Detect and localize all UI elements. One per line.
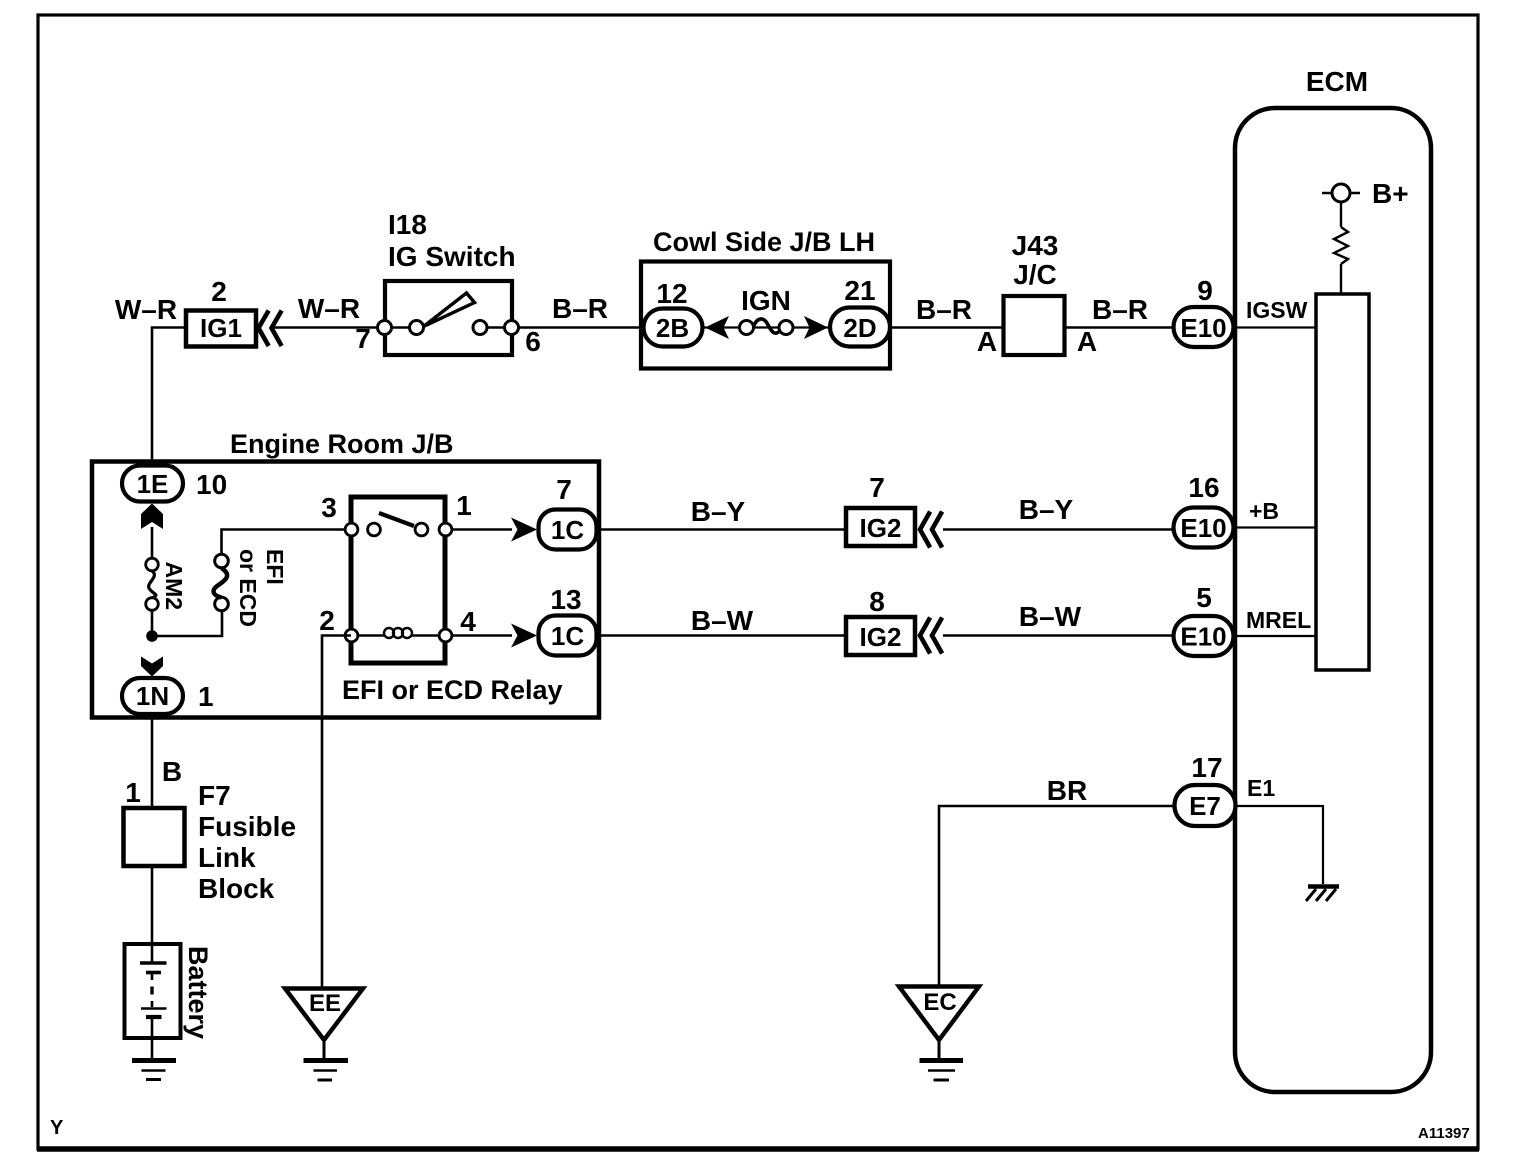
svg-text:4: 4 xyxy=(460,606,476,637)
junction block Cowl Side J/B LH xyxy=(641,227,890,369)
svg-text:7: 7 xyxy=(355,323,371,354)
wire B-W from 1C to IG2 xyxy=(596,605,846,636)
svg-text:Engine Room J/B: Engine Room J/B xyxy=(230,429,454,459)
svg-text:W–R: W–R xyxy=(298,293,360,324)
svg-text:5: 5 xyxy=(1196,582,1212,613)
connector E10 pin 16 xyxy=(1174,508,1234,548)
svg-text:E10: E10 xyxy=(1180,513,1226,543)
wire E1 to chassis ground xyxy=(1236,806,1323,884)
svg-text:B+: B+ xyxy=(1372,178,1409,209)
svg-text:2B: 2B xyxy=(656,313,689,343)
wire +B into ECM xyxy=(1234,526,1316,528)
svg-text:AM2: AM2 xyxy=(161,562,187,611)
svg-text:Link: Link xyxy=(198,842,256,873)
junction connector J43 J/C xyxy=(1004,230,1065,355)
fuse AM2 xyxy=(146,527,187,632)
svg-text:1C: 1C xyxy=(551,621,584,651)
wire inside IG switch xyxy=(384,326,416,328)
svg-text:+B: +B xyxy=(1249,498,1279,524)
Engine Room J/B box xyxy=(92,429,599,718)
svg-text:J43: J43 xyxy=(1012,230,1059,261)
svg-text:Battery: Battery xyxy=(183,946,213,1039)
relay coil pins xyxy=(345,629,452,642)
svg-text:J/C: J/C xyxy=(1013,259,1057,290)
svg-text:EE: EE xyxy=(309,990,341,1017)
battery xyxy=(125,944,214,1059)
svg-text:17: 17 xyxy=(1191,752,1222,783)
svg-text:B–R: B–R xyxy=(1092,294,1148,325)
svg-text:12: 12 xyxy=(656,278,687,309)
connector chevrons after IG1 xyxy=(259,313,281,345)
wire B-R from IG switch to cowl side J/B xyxy=(519,293,643,328)
svg-text:A: A xyxy=(977,326,997,357)
switch pin contacts xyxy=(378,321,519,335)
svg-text:2D: 2D xyxy=(843,313,876,343)
wire B-Y from IG2 to E10 xyxy=(943,494,1175,530)
fuse IG1 xyxy=(186,311,256,347)
ECM block xyxy=(1235,66,1431,1092)
fusible link IGN inside cowl J/B xyxy=(740,285,794,335)
wire through IGN fusible link xyxy=(703,326,830,328)
connector E10 pin 5 xyxy=(1174,616,1234,656)
svg-text:7: 7 xyxy=(869,472,885,503)
switch I18 IG Switch xyxy=(355,209,541,357)
svg-text:B–W: B–W xyxy=(691,605,754,636)
current arrow down to 1N xyxy=(141,657,163,677)
svg-text:IG2: IG2 xyxy=(860,513,902,543)
fuse IG2 (B-Y row) xyxy=(846,508,915,546)
connector chevrons after IG2 (B-Y row) xyxy=(920,514,941,546)
wire from relay pin 1 to 1C xyxy=(452,528,512,530)
resistor inside ECM xyxy=(1334,202,1348,294)
svg-text:E10: E10 xyxy=(1180,313,1226,343)
svg-text:IGSW: IGSW xyxy=(1246,297,1308,323)
svg-text:IG Switch: IG Switch xyxy=(388,241,516,272)
connector chevrons after IG2 (B-W row) xyxy=(920,620,941,652)
wire B-R from J43 to E10 xyxy=(1065,294,1175,328)
svg-text:ECM: ECM xyxy=(1306,66,1368,97)
svg-text:Y: Y xyxy=(50,1117,64,1139)
current arrow up to 1E xyxy=(141,504,163,530)
connector arrow at 1C pin 13 xyxy=(511,624,537,648)
svg-text:10: 10 xyxy=(196,469,227,500)
svg-text:B–R: B–R xyxy=(916,294,972,325)
svg-text:A11397: A11397 xyxy=(1418,1125,1470,1142)
connector 1E xyxy=(122,466,183,502)
relay EFI or ECD Relay xyxy=(319,490,562,705)
connector arrow at 1C pin 7 xyxy=(511,518,537,542)
relay switch lever xyxy=(379,513,414,526)
svg-text:7: 7 xyxy=(556,474,572,505)
svg-text:E7: E7 xyxy=(1189,791,1221,821)
connector 1C pin 7 xyxy=(539,510,597,550)
svg-text:W–R: W–R xyxy=(115,294,177,325)
svg-text:1N: 1N xyxy=(136,681,169,711)
wire from fusible link block to battery xyxy=(151,866,154,944)
connector 1C pin 13 xyxy=(539,616,597,656)
wire B-R from cowl J/B to J43 xyxy=(890,294,1003,328)
fuse IG2 (B-W row) xyxy=(846,617,915,655)
relay contact pins top xyxy=(345,523,452,536)
svg-text:B: B xyxy=(162,756,182,787)
svg-text:MREL: MREL xyxy=(1246,607,1311,633)
svg-text:IG1: IG1 xyxy=(200,313,242,343)
wire W-R from IG1 down to Engine Room J/B xyxy=(152,328,184,467)
svg-text:1: 1 xyxy=(456,490,472,521)
ground below battery xyxy=(132,1061,176,1080)
ground EC xyxy=(899,987,979,1081)
wire from EFI fuse to relay pin 3 xyxy=(222,530,351,555)
svg-text:B–R: B–R xyxy=(552,293,608,324)
svg-text:1E: 1E xyxy=(137,469,169,499)
svg-text:A: A xyxy=(1077,326,1097,357)
svg-text:E10: E10 xyxy=(1180,622,1226,652)
svg-text:EFI or ECD Relay: EFI or ECD Relay xyxy=(342,675,563,705)
connector arrow at 2D xyxy=(804,316,828,339)
svg-text:1: 1 xyxy=(125,777,141,808)
svg-text:6: 6 xyxy=(525,326,541,357)
svg-text:2: 2 xyxy=(319,605,335,636)
svg-text:B–Y: B–Y xyxy=(691,496,746,527)
wire from relay pin 4 to 1C xyxy=(452,634,512,636)
svg-text:3: 3 xyxy=(321,492,337,523)
chassis ground inside ECM xyxy=(1306,887,1339,902)
svg-text:F7: F7 xyxy=(198,780,231,811)
wire B-W from IG2 to E10 xyxy=(943,601,1175,636)
svg-text:21: 21 xyxy=(844,275,875,306)
wire from 1N to fusible link block xyxy=(151,714,154,808)
connector 2D xyxy=(830,308,890,347)
svg-text:BR: BR xyxy=(1047,775,1087,806)
svg-text:9: 9 xyxy=(1197,275,1213,306)
connector arrow at 2B xyxy=(705,316,729,339)
svg-text:EC: EC xyxy=(923,989,956,1016)
wire W-R between IG1 and IG switch xyxy=(273,293,377,328)
ECM internal circuit block xyxy=(1316,294,1369,670)
switch lever xyxy=(424,293,475,327)
relay coil xyxy=(358,628,439,638)
connector E10 pin 9 xyxy=(1174,307,1234,347)
fuse EFI or ECD xyxy=(214,549,288,627)
svg-text:IG2: IG2 xyxy=(860,622,902,652)
connector 1N xyxy=(122,678,183,714)
fusible link block F7 xyxy=(124,780,297,904)
svg-text:E1: E1 xyxy=(1247,775,1275,801)
wire from relay pin 2 down to EE ground xyxy=(322,636,351,989)
svg-text:2: 2 xyxy=(211,276,227,307)
connector E7 pin 17 xyxy=(1175,785,1236,826)
svg-text:B–W: B–W xyxy=(1019,601,1082,632)
node B+ xyxy=(1322,178,1409,209)
svg-text:Block: Block xyxy=(198,873,275,904)
ground EE xyxy=(285,989,363,1081)
connector 2B xyxy=(644,309,703,347)
svg-text:IGN: IGN xyxy=(741,285,791,316)
svg-text:16: 16 xyxy=(1188,472,1219,503)
svg-text:8: 8 xyxy=(869,586,885,617)
svg-text:Fusible: Fusible xyxy=(198,811,296,842)
junction dot xyxy=(146,630,158,642)
svg-text:1: 1 xyxy=(198,681,214,712)
wire MREL into ECM xyxy=(1234,635,1316,637)
svg-text:I18: I18 xyxy=(388,209,427,240)
wire BR from EC ground to E7 xyxy=(939,775,1175,986)
svg-text:13: 13 xyxy=(550,584,581,615)
svg-text:B–Y: B–Y xyxy=(1019,494,1074,525)
svg-text:1C: 1C xyxy=(551,515,584,545)
svg-text:Cowl Side J/B LH: Cowl Side J/B LH xyxy=(653,227,875,257)
wire from junction to EFI fuse xyxy=(152,611,222,636)
wire B-Y from 1C to IG2 xyxy=(596,496,846,530)
wire IGSW into ECM xyxy=(1234,326,1316,328)
